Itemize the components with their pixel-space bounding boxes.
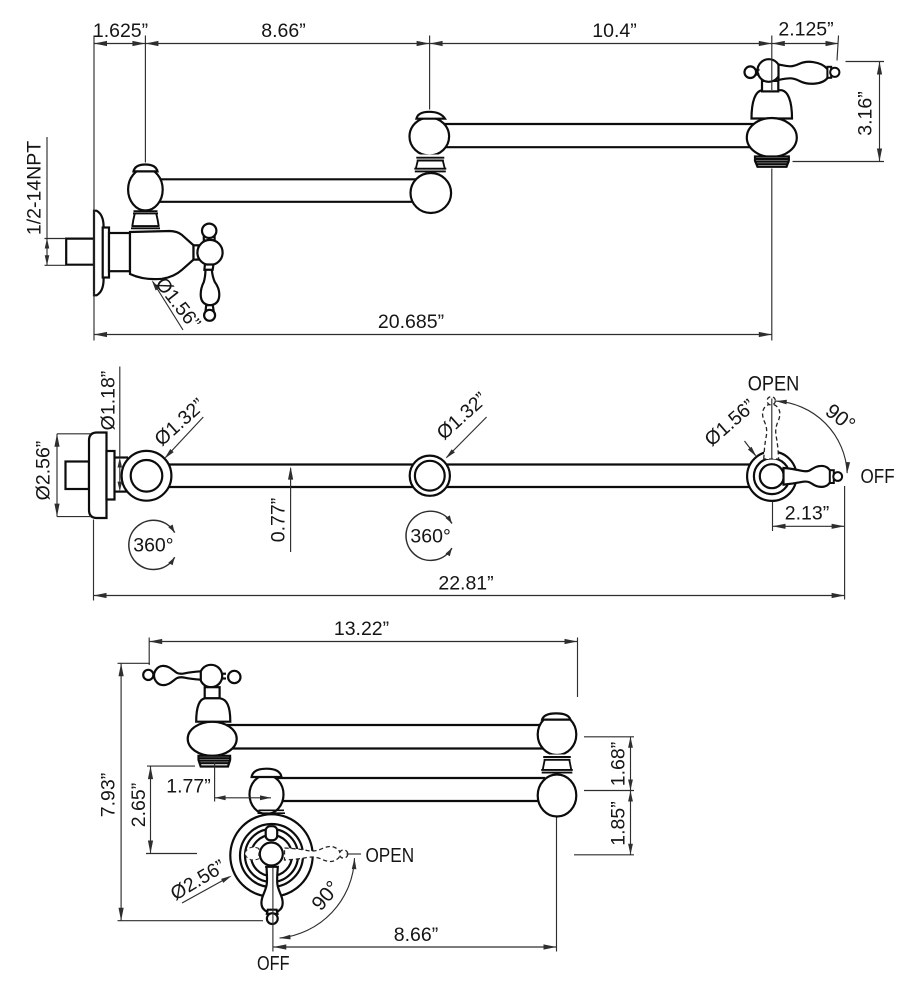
dim 8.66 extensions (bottom): [273, 818, 557, 952]
bottom view spout handle right ball: [222, 671, 241, 683]
mid view spout circles: [747, 452, 796, 501]
bottom view fold joint collar: [541, 755, 574, 775]
dim label 10.4 inch: [592, 20, 636, 42]
mid view flange disc: [89, 433, 107, 519]
dim extension line ball1 center x=145.4: [144, 36, 146, 163]
dim label 2.125 inch: [778, 19, 833, 41]
bottom view fold joint upper ball: [538, 714, 577, 755]
dim 13.22 extensions: [149, 638, 577, 698]
label 90 degrees rotated (mid): [821, 399, 860, 436]
dim line 1.68: [628, 737, 633, 791]
dim npt extension lines: [45, 239, 66, 266]
top view wall flange escutcheon: [94, 211, 104, 296]
rotation symbol 360 middle: [406, 511, 452, 560]
top view valve handle ball: [197, 240, 222, 265]
mid view tube to ring1: [115, 458, 129, 492]
dim label diameter 1.18 rotated (mid): [98, 371, 120, 431]
dim label 20.685 inch: [378, 311, 444, 333]
svg-text:1.68”: 1.68”: [608, 742, 630, 786]
dim line 13.22: [149, 639, 577, 644]
top view valve neck: [194, 245, 199, 259]
top view middle joint upper ball: [410, 118, 450, 156]
bottom view flange ring 3: [245, 829, 298, 882]
label OPEN (bottom): [347, 844, 415, 867]
dim diameter 2.56 extension lines (mid): [57, 434, 91, 517]
dim 1/2-14NPT leader line: [46, 137, 48, 239]
svg-text:1.625”: 1.625”: [93, 20, 148, 42]
svg-text:2.13”: 2.13”: [785, 503, 829, 525]
top view handle top stem and ball: [202, 224, 216, 241]
dim 1.77 extension: [214, 763, 216, 802]
dim line diameter 2.56 (mid): [54, 434, 59, 517]
top view middle joint lower ball: [411, 173, 452, 213]
svg-text:Ø1.18”: Ø1.18”: [98, 371, 120, 431]
bottom view fold joint cap: [542, 713, 570, 719]
dim label diameter 2.56 with leader (bottom): [167, 856, 232, 906]
dim label 1.77 inch: [166, 776, 210, 798]
bottom view spout handle lever: [143, 666, 201, 685]
dim line 1.77: [215, 795, 271, 800]
mid view swivel ring 2 (elbow joint): [410, 456, 450, 496]
top view spout bonnet: [752, 90, 793, 118]
dim label diameter 2.56 rotated (mid): [33, 441, 55, 501]
dim label diameter 1.56 with leader (mid): [700, 395, 759, 457]
dim line 8.66 (bottom): [273, 944, 556, 949]
dim diameter 1.18 leader and arrows (mid): [118, 367, 123, 492]
dim 3.16 extension lines: [793, 62, 885, 162]
top view spout aerator: [754, 157, 790, 167]
dim 22.81 extension left (mid): [93, 520, 95, 601]
svg-text:22.81”: 22.81”: [438, 573, 493, 595]
bottom view spout bonnet: [196, 698, 230, 721]
bottom view handle OFF lever: [261, 867, 282, 924]
svg-text:OPEN: OPEN: [748, 373, 800, 396]
dim 7.93 extensions: [118, 663, 264, 920]
dim label 13.22 inch: [334, 618, 389, 640]
bottom view handle OPEN position ghost: [285, 847, 348, 862]
dim label 1.85 inch rotated: [608, 801, 630, 845]
dim label 1.625 inch: [93, 20, 148, 42]
top view spout body ball: [747, 118, 797, 157]
bottom view flange outer circle: [230, 814, 312, 896]
dim label 8.66 inch (bottom): [394, 924, 438, 946]
dim extension line joint center x=429.6: [429, 36, 431, 110]
dim label 2.13 inch (mid): [785, 503, 829, 525]
dim label diameter 1.32 right with leader (mid): [433, 388, 492, 458]
dim extension spout center lower x=771.8: [771, 169, 773, 341]
arc 90 degrees (mid): [776, 400, 850, 473]
dim line 1.85: [628, 791, 633, 855]
bottom view flange swing ball: [250, 775, 284, 814]
dim label 2.65 inch rotated: [128, 783, 150, 827]
svg-text:8.66”: 8.66”: [394, 924, 438, 946]
mid view handle OPEN position ghost: [763, 397, 780, 459]
dim line 22.81 (mid): [94, 593, 845, 598]
svg-text:1.85”: 1.85”: [608, 801, 630, 845]
bottom view flange collar lines: [258, 810, 286, 813]
top view spout handle back ball: [745, 66, 760, 78]
top view valve lever: [201, 265, 220, 321]
svg-text:1.77”: 1.77”: [166, 776, 210, 798]
bottom view spout body ball: [188, 722, 237, 756]
bottom view fold joint lower ball: [538, 775, 577, 817]
top view arm 1 (lower swing arm): [152, 179, 418, 202]
bottom view handle ghost back nub dashed: [245, 847, 259, 860]
bottom view flange ring 2: [240, 824, 303, 887]
svg-text:7.93”: 7.93”: [98, 773, 120, 817]
svg-text:Ø2.56”: Ø2.56”: [33, 441, 55, 501]
svg-text:0.77”: 0.77”: [268, 498, 290, 542]
bottom view flange swing ball cap: [252, 769, 282, 777]
top view spout handle center ball: [758, 59, 781, 82]
mid view arm line plan: [150, 465, 770, 488]
arc 90 degrees (bottom): [280, 858, 357, 939]
dim npt arrows: [45, 239, 50, 266]
rotation symbol 360 left: [129, 520, 175, 569]
bottom view arm 1 (flange arm): [270, 778, 545, 801]
top view riser collar: [131, 211, 160, 228]
dim extension line spout center upper x=771.8: [771, 36, 773, 91]
top view arm 2 (upper swing arm): [440, 124, 762, 147]
bottom view handle back nub: [266, 826, 278, 840]
svg-text:3.16”: 3.16”: [855, 91, 877, 135]
bottom view spout handle center ball: [200, 665, 222, 687]
mid view flange collar: [107, 451, 115, 500]
dim 1.68 and 1.85 extensions: [574, 737, 634, 855]
dim line 20.685 at y=334.5: [94, 332, 772, 337]
dim extension line handle tip x=838.5: [837, 36, 839, 61]
svg-text:360°: 360°: [410, 525, 450, 547]
label OPEN (mid): [748, 373, 800, 396]
dim label diameter 1.56 inch rotated leader (top view): [151, 273, 205, 334]
bottom view arm 2 (spout arm): [225, 725, 545, 749]
dim 2.13 extensions (mid): [772, 399, 845, 600]
dim label diameter 1.32 left with leader (mid): [150, 394, 209, 458]
top view flange collar ring: [103, 228, 109, 278]
top view middle joint cap: [416, 112, 445, 119]
svg-text:OFF: OFF: [257, 953, 290, 975]
dim line 2.13 (mid): [773, 524, 845, 529]
top view middle joint collar: [414, 155, 446, 175]
bottom view flange inner ring: [251, 835, 292, 876]
svg-text:8.66”: 8.66”: [261, 20, 305, 42]
dim line 1.625 / 8.66 / 10.4 / 2.125 at y=43.5: [94, 41, 839, 46]
svg-text:OPEN: OPEN: [365, 844, 414, 867]
bottom view spout aerator: [198, 756, 232, 767]
svg-text:360°: 360°: [133, 535, 173, 557]
dim line 3.16 vertical: [877, 62, 882, 162]
label OFF (mid): [861, 466, 895, 488]
svg-text:2.125”: 2.125”: [778, 19, 833, 41]
label 90 degrees rotated (bottom): [307, 877, 345, 916]
top view spout handle stem: [762, 81, 778, 92]
svg-text:20.685”: 20.685”: [378, 311, 444, 333]
top view flange hub: [109, 233, 130, 271]
top view spout handle lever: [779, 62, 840, 84]
svg-text:10.4”: 10.4”: [592, 20, 636, 42]
svg-text:1/2-14NPT: 1/2-14NPT: [24, 141, 46, 235]
dim label 0.77 rotated (mid): [268, 498, 290, 542]
dim label 1/2-14NPT rotated: [24, 141, 46, 235]
dim 2.65 extensions: [146, 766, 197, 853]
label OFF (bottom): [257, 953, 290, 975]
dim extension line wall plane x=94: [93, 36, 95, 341]
dim 0.77 arrow and leader (mid): [288, 467, 293, 552]
svg-text:OFF: OFF: [861, 466, 895, 488]
mid view handle OFF position lever: [784, 466, 843, 487]
top view body swing ball: [128, 169, 163, 211]
dim line 7.93: [119, 663, 124, 920]
dim label 8.66 inch: [261, 20, 305, 42]
mid view pipe stub: [66, 462, 90, 490]
top view body swing ball cap: [134, 165, 158, 172]
mid view swivel ring 1 (flange joint): [122, 451, 172, 501]
svg-text:2.65”: 2.65”: [128, 783, 150, 827]
dim line 2.65: [148, 766, 153, 853]
svg-text:13.22”: 13.22”: [334, 618, 389, 640]
dim label 1.68 inch rotated: [608, 742, 630, 786]
dim label 7.93 inch rotated: [98, 773, 120, 817]
top view valve body: [130, 231, 194, 279]
top view wall pipe 1/2-14NPT: [66, 239, 94, 265]
dim label 3.16 inch rotated: [855, 91, 877, 135]
bottom view handle center ball: [260, 843, 283, 866]
dim label 22.81 inch (mid): [438, 573, 493, 595]
bottom view spout handle stem: [205, 687, 220, 698]
